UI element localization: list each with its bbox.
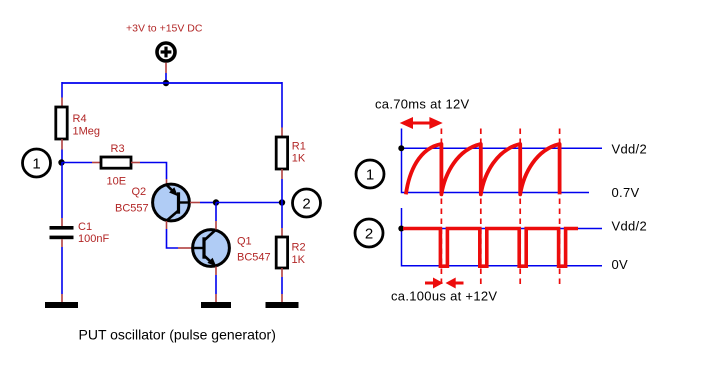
wire right branch upper [281, 82, 283, 137]
node 1 circle waveform [356, 160, 384, 188]
svg-text:ca.70ms at 12V: ca.70ms at 12V [375, 97, 470, 112]
wire power lead [165, 63, 167, 83]
svg-text:BC557: BC557 [115, 203, 149, 215]
svg-text:C1: C1 [78, 221, 92, 233]
junction Q1 collector node [213, 199, 219, 205]
node 1 label circle [23, 149, 51, 177]
svg-text:Q2: Q2 [132, 186, 147, 198]
resistor R3 [101, 143, 131, 188]
wire junction to node 2 [216, 202, 282, 204]
wire R1 to node 2 [281, 169, 283, 203]
svg-text:1: 1 [32, 156, 40, 173]
junction node 2 [279, 199, 285, 205]
wire top rail [62, 82, 282, 84]
dashed timing line 1 [440, 129, 442, 286]
waveform 1 sawtooth [406, 144, 560, 194]
svg-text:10E: 10E [107, 176, 127, 188]
waveform 1 axes [402, 129, 590, 193]
svg-text:Q1: Q1 [237, 236, 252, 248]
svg-text:1K: 1K [292, 254, 306, 266]
wire node 2 to R2 [281, 203, 283, 238]
dashed timing line 3 [519, 129, 521, 286]
wire C1 to ground [61, 239, 63, 302]
svg-text:1: 1 [366, 167, 374, 184]
resistor R2 [276, 237, 305, 268]
transistor Q2 BC557 [115, 184, 190, 221]
waveform 2 Vdd/2 line [402, 228, 603, 230]
wire Q2 collector to Q1 base [167, 221, 193, 248]
wire R2 to ground [281, 268, 283, 302]
dashed timing line 4 [559, 129, 561, 286]
svg-text:R1: R1 [292, 141, 306, 153]
svg-text:2: 2 [302, 196, 310, 213]
svg-text:ca.100us at +12V: ca.100us at +12V [391, 289, 497, 304]
svg-text:1K: 1K [292, 153, 306, 165]
wire node 1 to C1 [61, 163, 63, 227]
svg-text:BC547: BC547 [237, 251, 271, 263]
svg-text:0.7V: 0.7V [612, 185, 640, 200]
resistor R4 [56, 107, 100, 139]
svg-text:R2: R2 [292, 242, 306, 254]
arrow 100us left [425, 278, 443, 289]
svg-text:PUT oscillator (pulse generato: PUT oscillator (pulse generator) [79, 327, 276, 343]
wire Q1 emitter to ground [215, 267, 217, 303]
capacitor C1 [50, 221, 110, 245]
wire Q2 base to junction [190, 202, 216, 204]
arrow 100us right [446, 278, 464, 289]
svg-text:0V: 0V [612, 257, 629, 272]
resistor R1 [276, 137, 306, 169]
ground under C1 [45, 302, 78, 308]
dashed timing line 2 [480, 129, 482, 286]
node 2 label circle [293, 189, 321, 217]
ground under Q1 [201, 302, 231, 308]
arrow 70ms period [400, 117, 443, 129]
waveform 2 square wave [403, 229, 578, 267]
transistor Q1 BC547 [193, 230, 271, 267]
dot waveform 1 [398, 145, 404, 151]
wire R3 to Q2 emitter [131, 163, 167, 185]
svg-text:R4: R4 [73, 113, 87, 125]
dot waveform 2 [398, 226, 404, 232]
svg-text:+3V to +15V DC: +3V to +15V DC [126, 23, 203, 35]
waveform 2 axes [402, 208, 603, 266]
power supply symbol [157, 43, 175, 61]
wire Q1 collector to junction [215, 203, 217, 230]
svg-text:R3: R3 [111, 143, 125, 155]
svg-text:Vdd/2: Vdd/2 [612, 218, 647, 233]
node A junction 1 [58, 159, 64, 165]
svg-text:100nF: 100nF [78, 233, 109, 245]
ground under R2 [266, 302, 299, 308]
waveform 1 Vdd/2 line [402, 147, 603, 149]
svg-text:2: 2 [365, 226, 373, 243]
junction supply node [163, 80, 169, 86]
svg-text:Vdd/2: Vdd/2 [612, 141, 647, 156]
node 2 circle waveform [355, 219, 383, 247]
svg-text:1Meg: 1Meg [73, 126, 101, 138]
wire node 1 to R3 [62, 162, 102, 164]
wire left branch upper [61, 82, 63, 107]
wire R4 to node 1 [61, 139, 63, 163]
